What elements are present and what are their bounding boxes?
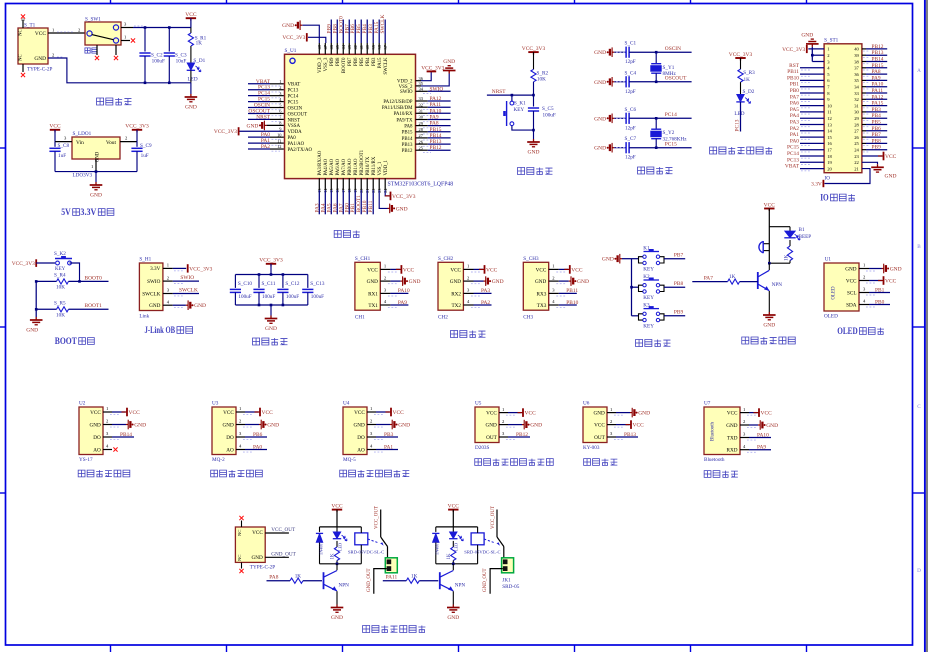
svg-text:PB0: PB0	[790, 88, 800, 94]
svg-text:PB3: PB3	[372, 57, 377, 66]
svg-text:BOOT0: BOOT0	[342, 57, 347, 73]
title module U5	[475, 459, 482, 466]
svg-text:D: D	[917, 568, 921, 574]
crystal S_Y1 8MHz	[655, 51, 658, 54]
terminal block SRD-05	[385, 558, 397, 573]
svg-text:VCC_3V3: VCC_3V3	[125, 124, 149, 130]
svg-text:1uF: 1uF	[141, 153, 149, 159]
base resistor 1K relay	[406, 578, 419, 583]
reset bottom wire	[512, 126, 534, 131]
ground GND keys	[620, 258, 622, 260]
svg-text:3.3V: 3.3V	[811, 181, 822, 187]
svg-text:SWCLK: SWCLK	[142, 291, 160, 297]
svg-text:S_ST1: S_ST1	[824, 38, 839, 44]
svg-text:S_C5: S_C5	[542, 106, 554, 112]
relay LED	[452, 527, 454, 532]
base resistor 1K relay	[290, 578, 303, 583]
svg-text:VBAT: VBAT	[785, 164, 800, 170]
svg-text:15: 15	[827, 135, 832, 140]
svg-text:PA1: PA1	[790, 132, 799, 138]
svg-text:PA8: PA8	[404, 125, 413, 130]
ST1 pin21 to 3.3V	[825, 169, 871, 184]
module U5 D203S	[475, 407, 499, 443]
title module U2	[78, 470, 85, 477]
H1 pin2 net SWIO	[163, 280, 173, 282]
svg-text:1K: 1K	[411, 573, 418, 579]
svg-text:VCC: VCC	[35, 31, 46, 37]
TYPE-C output top stub	[241, 521, 243, 528]
svg-text:PA10: PA10	[430, 108, 442, 114]
svg-text:AO: AO	[93, 447, 101, 453]
svg-text:GND_OUT: GND_OUT	[483, 568, 488, 592]
svg-text:PA2/TX/AO: PA2/TX/AO	[288, 148, 313, 153]
svg-text:PA2: PA2	[261, 144, 270, 150]
svg-text:VCC: VCC	[486, 267, 498, 273]
svg-text:PA15: PA15	[872, 101, 884, 107]
svg-text:28: 28	[854, 122, 859, 127]
S_CH2 pin4 net PA2	[463, 304, 473, 306]
S_CH1 pin4 net PA9	[380, 304, 390, 306]
flyback diode 1N4007	[435, 527, 437, 532]
svg-text:KEY: KEY	[55, 267, 66, 272]
svg-text:SRD-05VDC-SL-C: SRD-05VDC-SL-C	[464, 550, 500, 555]
U2 pin1 to VCC	[103, 411, 112, 413]
S_CH2 pin1 to VCC	[463, 268, 473, 270]
ST1 pin23 to VCC	[862, 155, 882, 157]
svg-text:VCC_OUT: VCC_OUT	[271, 527, 296, 533]
svg-text:35: 35	[854, 78, 859, 83]
svg-text:OLED: OLED	[832, 286, 837, 300]
relay emitter to GND	[451, 590, 453, 592]
resistor S_R2 10K	[531, 69, 536, 82]
alarm top node	[769, 226, 790, 228]
S_CH1 pin1 to VCC	[380, 268, 390, 270]
svg-text:VCC: VCC	[486, 411, 497, 417]
svg-text:12pF: 12pF	[625, 155, 636, 161]
svg-text:PB14: PB14	[402, 137, 413, 142]
capacitor S_C7 12pF	[614, 147, 626, 149]
title 蓝牙模块	[704, 471, 711, 478]
svg-text:PB13: PB13	[402, 143, 413, 148]
svg-text:KY-003: KY-003	[583, 445, 600, 451]
title 晶振电路	[638, 167, 645, 174]
svg-text:OUT: OUT	[594, 435, 605, 441]
svg-text:VSS_2: VSS_2	[399, 85, 413, 90]
wire S_C1 to net OSCIN	[629, 51, 692, 53]
svg-text:100uF: 100uF	[286, 294, 299, 300]
frame zone ticks bottom	[110, 645, 112, 652]
svg-text:GND: GND	[409, 279, 421, 285]
svg-text:PB10: PB10	[787, 75, 799, 81]
svg-text:PA10/RX: PA10/RX	[394, 112, 413, 117]
svg-text:PB6: PB6	[872, 126, 882, 132]
capacitor S_C12 100uF	[282, 275, 284, 288]
svg-text:PA7: PA7	[790, 94, 799, 100]
svg-text:1K: 1K	[729, 274, 736, 280]
button S_K1 KEY	[511, 95, 513, 101]
svg-text:B: B	[917, 244, 921, 250]
svg-text:GND: GND	[354, 422, 365, 428]
wire LDO GND pin1 and bottom rail	[95, 159, 97, 172]
svg-text:PA0: PA0	[288, 136, 297, 141]
ground GND for S_C1	[612, 51, 614, 53]
svg-text:PA8: PA8	[872, 69, 881, 75]
S_T1 bottom no-connect stub	[22, 64, 24, 72]
svg-text:GND: GND	[594, 80, 606, 86]
title module U6	[584, 459, 591, 466]
svg-text:NPN: NPN	[339, 583, 350, 589]
svg-text:18: 18	[827, 154, 832, 159]
svg-text:PB15: PB15	[430, 127, 442, 133]
H1 pin4 to GND	[163, 304, 173, 306]
U4 pin2 to GND	[367, 424, 376, 426]
svg-text:CH3: CH3	[523, 314, 533, 320]
resistor S_R5 10K	[36, 308, 56, 310]
U3 pin3 net PB6	[236, 436, 245, 438]
svg-text:BEEP: BEEP	[799, 234, 812, 240]
svg-text:IO: IO	[820, 193, 829, 203]
resistor S_R1 1K	[190, 28, 192, 34]
svg-text:PB14: PB14	[872, 57, 884, 63]
svg-text:PA3: PA3	[790, 120, 799, 126]
svg-text:GND: GND	[845, 266, 856, 272]
svg-text:NPN: NPN	[772, 282, 783, 288]
svg-text:VCC: VCC	[252, 530, 263, 536]
svg-text:PB12: PB12	[430, 145, 442, 151]
power VCC_3V3 reset	[528, 51, 538, 53]
svg-text:GND: GND	[885, 174, 897, 180]
svg-text:YS-17: YS-17	[79, 457, 93, 463]
svg-text:10: 10	[827, 103, 832, 108]
svg-text:TXD: TXD	[727, 435, 738, 441]
terminal block JK1 SRD-05	[502, 558, 514, 573]
relay LED	[336, 527, 338, 532]
connector S_CH3	[523, 262, 548, 310]
svg-text:PA5: PA5	[790, 107, 799, 113]
svg-text:12: 12	[827, 116, 832, 121]
S_T1 top no-connect stub	[22, 20, 24, 28]
capacitor S_C11 100uF	[258, 275, 260, 288]
svg-text:PA0: PA0	[253, 444, 262, 450]
svg-text:PA8: PA8	[430, 121, 439, 127]
svg-text:29: 29	[854, 116, 859, 121]
svg-text:GND: GND	[396, 206, 408, 212]
svg-text:KEY: KEY	[643, 266, 654, 272]
svg-text:VCC_3V3: VCC_3V3	[392, 194, 416, 200]
U2 pin2 to GND	[103, 424, 112, 426]
flyback diode 1N4007	[319, 527, 321, 532]
svg-text:CH2: CH2	[438, 314, 448, 320]
U1 pin47 VSS_3 to VCC_3V3	[308, 37, 326, 43]
svg-text:VCC: VCC	[354, 410, 365, 416]
svg-text:Bluetooth: Bluetooth	[711, 421, 716, 441]
capacitor S_C5 100uF	[533, 95, 535, 106]
svg-text:1uF: 1uF	[58, 153, 66, 159]
svg-text:SWCLK: SWCLK	[380, 15, 386, 34]
svg-text:1K: 1K	[447, 553, 452, 560]
svg-text:GND: GND	[90, 193, 102, 199]
svg-text:PA8: PA8	[269, 575, 278, 581]
U1 VSSA pin8 to GND	[267, 124, 284, 126]
U1 top pins and rotated net labels	[318, 43, 320, 54]
svg-text:100uF: 100uF	[543, 113, 556, 119]
svg-text:KEY: KEY	[643, 324, 654, 330]
svg-text:PA12: PA12	[430, 96, 442, 102]
capacitor S_C8 1uF	[54, 142, 56, 147]
U1 right pins and net labels	[416, 90, 428, 92]
svg-text:VCC_3V3: VCC_3V3	[421, 66, 444, 72]
LED S_D1	[190, 46, 192, 63]
svg-text:PA12/USB/DP: PA12/USB/DP	[383, 100, 412, 105]
svg-text:DO: DO	[226, 435, 234, 441]
svg-text:OSCOUT: OSCOUT	[288, 112, 308, 117]
svg-text:VCC: VCC	[450, 267, 461, 273]
wire S_C4 to net OSCOUT	[629, 81, 692, 83]
svg-text:VCC: VCC	[525, 411, 537, 417]
svg-text:SWCLK: SWCLK	[179, 288, 198, 294]
BOOT pulldown rail to GND	[35, 281, 37, 317]
U1 bottom pins and rotated net labels	[318, 178, 320, 190]
ST1 left net labels rows4-20	[800, 67, 824, 69]
svg-text:RX2: RX2	[451, 291, 461, 297]
connector TYPE-C-2P output	[235, 527, 265, 562]
svg-text:PC13: PC13	[288, 89, 299, 94]
ground GND for S_C6	[612, 117, 614, 119]
U6 pin3 PB13	[607, 436, 616, 438]
H1 pin3 net SWCLK	[163, 293, 173, 295]
OLED pin1 to GND	[859, 268, 869, 270]
svg-text:VCC_OUT: VCC_OUT	[375, 506, 380, 529]
svg-text:S_K1: S_K1	[514, 101, 526, 107]
svg-text:100uF: 100uF	[262, 294, 275, 300]
svg-text:GND: GND	[638, 411, 650, 417]
svg-text:GND: GND	[194, 303, 206, 309]
U7 pin3 net PA10	[740, 437, 749, 439]
svg-text:PB15: PB15	[872, 63, 884, 69]
module U3 MQ-2	[212, 407, 236, 455]
svg-text:VCC: VCC	[129, 410, 141, 416]
svg-text:VCC: VCC	[885, 279, 897, 285]
svg-text:PB5: PB5	[360, 57, 365, 66]
svg-text:S_K2: S_K2	[54, 251, 66, 257]
svg-text:40: 40	[854, 47, 859, 52]
OLED pin3 net PB1	[859, 292, 869, 294]
S_CH3 pin3 net PB11	[549, 292, 559, 294]
svg-text:GND: GND	[252, 555, 263, 561]
svg-text:32: 32	[854, 97, 859, 102]
svg-text:VSS_1: VSS_1	[378, 161, 383, 175]
svg-text:1N4007: 1N4007	[318, 542, 323, 556]
svg-text:17: 17	[827, 148, 832, 153]
module U6 KY-003	[583, 407, 607, 443]
svg-text:NRST: NRST	[288, 118, 301, 123]
svg-text:GND: GND	[766, 423, 778, 429]
svg-text:TX2: TX2	[451, 303, 461, 309]
svg-text:S_C11: S_C11	[262, 281, 276, 287]
svg-text:12pF: 12pF	[625, 89, 636, 95]
svg-text:VCC: VCC	[185, 12, 197, 18]
svg-text:PB13: PB13	[872, 50, 884, 56]
capacitor S_C3 10uF	[168, 28, 170, 52]
svg-text:PB3: PB3	[872, 107, 882, 113]
U4 pin1 to VCC	[367, 411, 376, 413]
svg-text:S_C4: S_C4	[625, 70, 637, 76]
svg-text:S_U1: S_U1	[285, 48, 297, 54]
svg-text:23: 23	[854, 154, 859, 159]
svg-text:22: 22	[854, 160, 859, 165]
svg-text:10K: 10K	[56, 285, 65, 291]
title 复位电路	[518, 167, 525, 174]
wire S_C7 to net PC15	[629, 147, 692, 149]
U6 pin1 GND	[607, 412, 616, 414]
svg-text:U3: U3	[212, 401, 219, 407]
svg-text:S_C1: S_C1	[625, 41, 637, 47]
title 程序运行指示灯	[710, 147, 717, 154]
connector S_CH2	[438, 262, 463, 310]
svg-text:VCC: VCC	[885, 154, 897, 160]
svg-text:VCC: VCC	[571, 267, 583, 273]
svg-text:SWCLK: SWCLK	[384, 57, 389, 75]
svg-text:PB2/BOOT1: PB2/BOOT1	[360, 149, 365, 175]
svg-text:PA3: PA3	[481, 288, 490, 294]
svg-text:S_CH2: S_CH2	[438, 256, 454, 262]
svg-text:PB12: PB12	[872, 44, 884, 50]
svg-text:NC: NC	[19, 29, 24, 36]
button K2 KEY	[632, 286, 639, 288]
svg-text:VCC_3V3: VCC_3V3	[729, 52, 753, 58]
svg-text:VCC: VCC	[367, 267, 378, 273]
svg-text:S_R5: S_R5	[54, 301, 66, 307]
svg-text:10K: 10K	[56, 313, 65, 319]
title 主芯片	[334, 230, 341, 237]
title module U4	[340, 470, 347, 477]
svg-text:8MHz: 8MHz	[663, 71, 677, 77]
S_CH2 pin2 to GND	[463, 280, 473, 282]
svg-text:PC14: PC14	[665, 112, 677, 118]
svg-text:VCC_OUT: VCC_OUT	[491, 506, 496, 529]
svg-text:PC13: PC13	[735, 119, 741, 131]
net PC13 wire rotated label	[740, 102, 742, 132]
svg-text:PB13: PB13	[624, 432, 636, 438]
svg-text:K1: K1	[643, 245, 650, 251]
net PB8	[664, 286, 685, 288]
relay LED resistor 1K	[334, 547, 339, 561]
S_CH3 pin2 to GND	[549, 280, 559, 282]
svg-text:PA9: PA9	[430, 115, 439, 121]
svg-text:GND_OUT: GND_OUT	[271, 551, 296, 557]
svg-text:S_D1: S_D1	[193, 58, 205, 64]
svg-text:S_C13: S_C13	[310, 281, 325, 287]
svg-text:PB7: PB7	[872, 132, 882, 138]
svg-text:PA10: PA10	[872, 82, 884, 88]
svg-text:Vin: Vin	[76, 140, 84, 146]
svg-text:GND: GND	[594, 116, 606, 122]
connector S_ST1 40-pin header	[824, 44, 862, 173]
svg-text:VCC: VCC	[846, 278, 857, 284]
svg-text:GND: GND	[528, 150, 540, 156]
svg-text:26: 26	[854, 135, 859, 140]
svg-text:3.3V: 3.3V	[150, 266, 160, 272]
svg-text:30: 30	[854, 110, 859, 115]
svg-text:S_Y1: S_Y1	[663, 65, 675, 71]
svg-text:S_C9: S_C9	[140, 143, 152, 149]
MCU U1 STM32F103C8T6 body	[285, 54, 416, 178]
button K1 KEY	[632, 258, 639, 260]
svg-text:S_T1: S_T1	[24, 23, 36, 29]
svg-text:PB8: PB8	[674, 281, 684, 287]
svg-text:PA11/USB/DM: PA11/USB/DM	[382, 106, 413, 111]
net PA11 base wire	[383, 580, 407, 582]
regulator S_LDO1	[72, 137, 120, 159]
svg-text:VCC_3V3: VCC_3V3	[282, 35, 305, 41]
svg-text:RX3: RX3	[536, 291, 546, 297]
svg-text:GND: GND	[223, 422, 234, 428]
svg-text:VCC: VCC	[90, 410, 101, 416]
svg-text:LED: LED	[337, 543, 342, 551]
svg-text:DO: DO	[93, 435, 101, 441]
svg-text:PB8: PB8	[336, 57, 341, 66]
svg-text:LED: LED	[734, 111, 744, 117]
svg-text:PB4: PB4	[366, 57, 371, 66]
svg-text:PB6: PB6	[253, 432, 263, 438]
capacitor S_C13 100uF	[307, 275, 309, 288]
svg-text:NRST: NRST	[492, 89, 506, 95]
svg-text:GND: GND	[594, 50, 606, 56]
svg-text:CH1: CH1	[355, 314, 365, 320]
svg-text:GND: GND	[726, 423, 737, 429]
svg-text:Vout: Vout	[106, 140, 117, 146]
svg-text:KEY: KEY	[643, 295, 654, 301]
svg-text:3.3V: 3.3V	[80, 208, 96, 218]
svg-text:20: 20	[827, 166, 832, 171]
svg-text:SWIO: SWIO	[180, 275, 194, 281]
title 滤波电路	[253, 338, 260, 345]
svg-text:GND: GND	[265, 326, 277, 332]
resistor S_R3 1K	[738, 69, 743, 82]
switch S_SW1	[85, 22, 121, 45]
svg-text:PB9: PB9	[674, 310, 684, 316]
U4 pin3 net PB3	[367, 436, 376, 438]
net NRST wire	[487, 94, 534, 96]
svg-text:GND: GND	[367, 279, 378, 285]
svg-text:PB7: PB7	[674, 252, 684, 258]
svg-text:S_SW1: S_SW1	[85, 17, 101, 23]
svg-text:PB7: PB7	[348, 57, 353, 66]
svg-text:GND: GND	[246, 123, 258, 129]
svg-text:VCC: VCC	[223, 410, 234, 416]
svg-text:PB1: PB1	[875, 287, 885, 293]
svg-text:TX3: TX3	[537, 303, 547, 309]
svg-text:PA15: PA15	[378, 57, 383, 68]
svg-text:GND: GND	[34, 56, 46, 62]
wire button to BOOT0 node	[70, 263, 80, 281]
svg-text:PC15: PC15	[787, 145, 799, 151]
ST1 pin22 to GND	[862, 162, 878, 164]
U4 pin4	[367, 449, 376, 451]
svg-text:1K: 1K	[784, 254, 790, 261]
ground GND for S_C4	[612, 81, 614, 83]
capacitor S_C1 12pF	[614, 51, 626, 53]
connector S_CH1	[355, 262, 380, 310]
svg-text:32.768KHz: 32.768KHz	[663, 137, 688, 143]
svg-text:1K: 1K	[295, 573, 302, 579]
svg-text:VDD_1: VDD_1	[384, 159, 389, 175]
svg-text:1K: 1K	[196, 41, 203, 47]
svg-text:VCC: VCC	[727, 411, 738, 417]
relay coil SRD-05VDC-SL-C	[355, 533, 368, 545]
power VCC alarm	[764, 208, 774, 210]
ground GND for S_C7	[612, 147, 614, 149]
